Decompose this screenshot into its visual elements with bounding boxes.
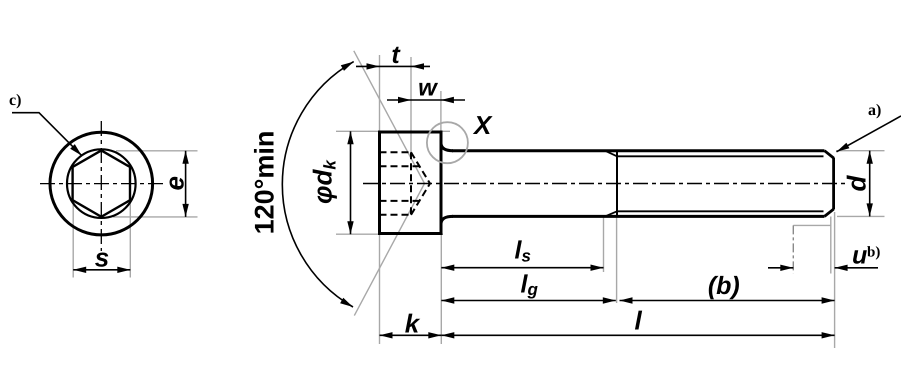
k arrow right	[428, 332, 441, 338]
u bracket right vertical	[830, 217, 832, 274]
socket hidden line bottom flat	[380, 200, 420, 202]
dimension s arrow left	[73, 267, 86, 273]
svg-text:(b): (b)	[708, 272, 740, 300]
socket cone lower hidden	[411, 184, 430, 215]
dimension l line	[441, 334, 834, 336]
cone construction line lower	[354, 184, 424, 316]
d arrow down	[867, 203, 873, 216]
extension line s right	[129, 203, 131, 278]
u right arrowhead	[835, 265, 848, 271]
leader a arrowhead	[837, 143, 850, 152]
b arrow left	[620, 297, 633, 303]
lg arrow left	[441, 297, 454, 303]
svg-text:X: X	[472, 110, 493, 140]
b arrow right	[822, 297, 835, 303]
t left arrowhead	[367, 63, 380, 69]
t left arrow tail	[356, 65, 380, 67]
cone construction line upper	[354, 51, 425, 184]
socket hexagon	[73, 150, 130, 216]
ls arrow right	[591, 265, 604, 271]
extension t left	[379, 55, 381, 131]
extension w right	[440, 91, 442, 131]
leader c arrowhead	[70, 144, 82, 156]
end chamfer top	[825, 151, 834, 158]
screw centerline	[363, 183, 845, 185]
shank bottom line	[452, 215, 825, 218]
thread root bottom	[617, 210, 824, 212]
dimension k line	[380, 334, 442, 336]
t right arrowhead	[411, 63, 424, 69]
svg-text:w: w	[418, 75, 438, 102]
svg-text:l: l	[635, 306, 643, 336]
dimension s line	[73, 269, 130, 271]
l arrow left	[441, 332, 454, 338]
k arrow left	[380, 332, 393, 338]
w right arrowhead	[441, 97, 454, 103]
socket hidden line top corner	[380, 151, 412, 153]
head rectangle	[380, 132, 442, 234]
extension screw end	[834, 212, 836, 348]
w left arrow tail	[387, 99, 411, 101]
dimension ls line	[441, 267, 603, 269]
dimension d line	[869, 151, 871, 217]
u left arrowhead	[780, 265, 793, 271]
t right arrow tail	[411, 65, 430, 67]
svg-text:c): c)	[9, 92, 21, 109]
dimension lg line	[441, 300, 616, 302]
dimension s arrow right	[117, 267, 130, 273]
extension dk bottom	[336, 233, 443, 235]
thread root top	[617, 155, 824, 157]
dimension e arrow up	[182, 151, 188, 164]
socket hidden line bottom corner	[380, 214, 412, 216]
ls arrow left	[441, 265, 454, 271]
socket chamfer circle	[67, 149, 136, 218]
head fillet bottom	[441, 216, 453, 223]
centerline vertical	[100, 121, 102, 251]
extension t right	[410, 57, 412, 152]
head outer circle	[50, 132, 153, 235]
thread runout top	[605, 151, 617, 157]
svg-text:k: k	[405, 309, 421, 339]
dimension t line	[380, 65, 412, 67]
w left arrowhead	[398, 97, 411, 103]
extension d top	[836, 150, 885, 152]
extension line e top	[116, 150, 198, 152]
svg-text:a): a)	[868, 102, 881, 119]
extension dk top	[336, 130, 450, 132]
detail X circle	[427, 122, 468, 163]
120 degree arc	[282, 62, 353, 307]
dimension u left arrow	[768, 267, 793, 269]
end face	[832, 158, 835, 210]
d arrow up	[867, 151, 873, 164]
svg-text:u: u	[852, 242, 867, 270]
socket bottom vertical hidden	[410, 152, 412, 215]
extension d bottom	[837, 215, 885, 217]
svg-text:s: s	[95, 243, 109, 273]
head fillet top	[441, 144, 453, 151]
extension line e bottom	[113, 216, 198, 218]
arc arrowhead upper	[341, 62, 354, 71]
u bracket horizontal	[793, 224, 831, 226]
socket cone upper hidden	[411, 152, 430, 183]
lg arrow right	[603, 297, 616, 303]
extension ls end	[603, 217, 605, 273]
dimension b line	[620, 300, 835, 302]
dimension e line	[185, 151, 187, 217]
socket hidden line top flat	[380, 165, 420, 167]
extension k left	[379, 234, 381, 344]
svg-text:e: e	[160, 176, 190, 190]
svg-text:b): b)	[867, 245, 880, 261]
shank top line	[452, 149, 825, 152]
arc arrowhead lower	[340, 298, 353, 307]
centerline horizontal	[40, 183, 164, 185]
leader a	[837, 116, 901, 152]
dk arrow up	[347, 131, 353, 144]
thread runout bottom	[605, 211, 617, 216]
l arrow right	[822, 332, 835, 338]
extension line s left	[72, 203, 74, 278]
svg-text:d: d	[842, 174, 872, 191]
dimension e arrow down	[182, 204, 188, 217]
w right arrow tail	[441, 99, 465, 101]
full thread boundary	[616, 151, 618, 217]
dimension dk line	[350, 131, 352, 234]
extension k right / l start	[440, 234, 442, 344]
dk arrow down	[347, 221, 353, 234]
extension lg end	[616, 217, 618, 304]
end chamfer bottom	[825, 209, 834, 216]
leader c	[12, 113, 82, 156]
dimension u right arrow	[835, 267, 878, 269]
svg-text:120°min: 120°min	[250, 131, 280, 235]
dimension w line	[411, 99, 441, 101]
u bracket left vertical dash-dot	[792, 225, 794, 273]
